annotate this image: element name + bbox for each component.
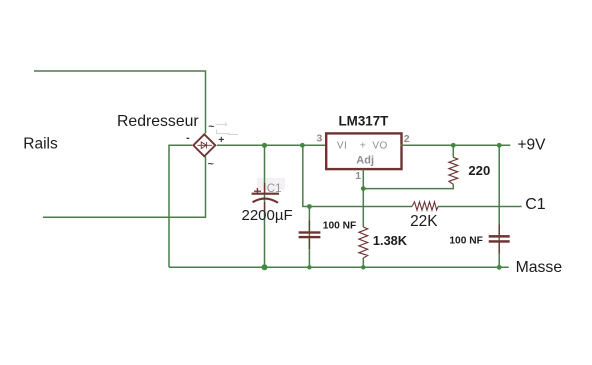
svg-text:VI: VI <box>337 140 347 151</box>
svg-text:Masse: Masse <box>516 259 563 276</box>
regulator U1 LM317 body <box>326 133 401 169</box>
pin number 2 <box>404 133 410 145</box>
label Rails <box>23 135 58 152</box>
bridge terminal mark ~ (bottom) <box>208 158 214 170</box>
junction: +9V rail top <box>497 143 502 148</box>
svg-text:2: 2 <box>404 133 410 145</box>
wire: bridge positive output to LM317 VI <box>217 144 325 146</box>
svg-text:2200µF: 2200µF <box>242 207 293 224</box>
svg-text:Redresseur: Redresseur <box>117 113 199 130</box>
svg-text:220: 220 <box>468 163 490 178</box>
label 2200uF <box>242 207 293 224</box>
svg-text:1.38K: 1.38K <box>373 233 408 248</box>
wire: AC input bottom rail <box>43 157 206 218</box>
svg-text:~: ~ <box>208 158 214 170</box>
svg-text:-: - <box>186 132 190 144</box>
junction: 220 top <box>451 143 456 148</box>
junction: 100nF left bottom <box>307 265 311 269</box>
label 100 NF (right) <box>449 236 482 247</box>
capacitor C1 2200uF <box>252 183 279 211</box>
svg-text:100 NF: 100 NF <box>323 220 356 231</box>
label Masse <box>516 259 563 276</box>
wire: 100nF left branch <box>308 207 310 268</box>
resistor 220 <box>449 157 458 184</box>
label C1 (cap designator) <box>267 183 282 195</box>
pin label Adj <box>356 154 374 166</box>
resistor 1.38K <box>359 227 368 258</box>
svg-text:C1: C1 <box>525 196 546 213</box>
capacitor 100 NF (left) <box>299 221 321 250</box>
bridge terminal mark + <box>218 134 224 146</box>
svg-text:C1: C1 <box>267 183 282 195</box>
wire: ground rail <box>169 266 509 268</box>
wire: bridge negative output to ground <box>169 145 192 267</box>
bridge terminal mark ~ (top) <box>208 121 214 133</box>
svg-text:~: ~ <box>208 121 214 133</box>
junction: filter cap bottom <box>262 264 268 270</box>
wire: 220 leads <box>363 145 453 188</box>
label 22K <box>410 213 438 230</box>
wire: +9V right rail <box>498 145 500 267</box>
wire: AC input top rail <box>34 71 206 134</box>
wire: filter cap branch <box>264 145 266 267</box>
pin number 1 <box>355 170 361 182</box>
svg-text:100 NF: 100 NF <box>449 236 482 247</box>
bridge terminal mark - <box>186 132 190 144</box>
pin number 3 <box>317 132 323 144</box>
wire: 100nF / C1 node drop <box>302 145 304 206</box>
wire: LM317 VO to +9V <box>401 144 511 146</box>
label 100 NF (left) <box>323 220 356 231</box>
label 220 <box>468 163 490 178</box>
svg-text:+: + <box>360 139 366 151</box>
pin label + <box>360 139 366 151</box>
pin label VI <box>337 140 347 151</box>
wire: C1 output node horizontal <box>302 206 521 208</box>
label Redresseur <box>117 113 199 130</box>
svg-text:3: 3 <box>317 132 323 144</box>
junction: 1.38K bottom <box>361 265 365 269</box>
junction: right rail bottom <box>497 265 502 270</box>
svg-text:+: + <box>218 134 224 146</box>
svg-text:Rails: Rails <box>23 135 58 152</box>
svg-text:LM317T: LM317T <box>339 114 390 129</box>
junction: 100nF left cap at C1 node <box>307 204 312 209</box>
bridge rectifier <box>193 134 215 156</box>
junction: 100nF branch top <box>300 143 305 148</box>
label LM317T <box>339 114 390 129</box>
svg-text:22K: 22K <box>410 213 438 230</box>
svg-text:Adj: Adj <box>356 154 374 166</box>
svg-text:VO: VO <box>372 140 387 151</box>
wire: Adj pin down to divider <box>362 170 364 268</box>
svg-text:1: 1 <box>355 170 361 182</box>
junction: Adj node <box>361 186 366 191</box>
label 1.38K <box>373 233 408 248</box>
resistor 22K <box>412 202 438 210</box>
svg-text:+9V: +9V <box>518 136 547 153</box>
junction: filter cap top <box>262 143 267 148</box>
label +9V <box>518 136 547 153</box>
label C1 (output node) <box>525 196 546 213</box>
capacitor 100 NF (right) <box>489 225 510 254</box>
pin label VO <box>372 140 387 151</box>
